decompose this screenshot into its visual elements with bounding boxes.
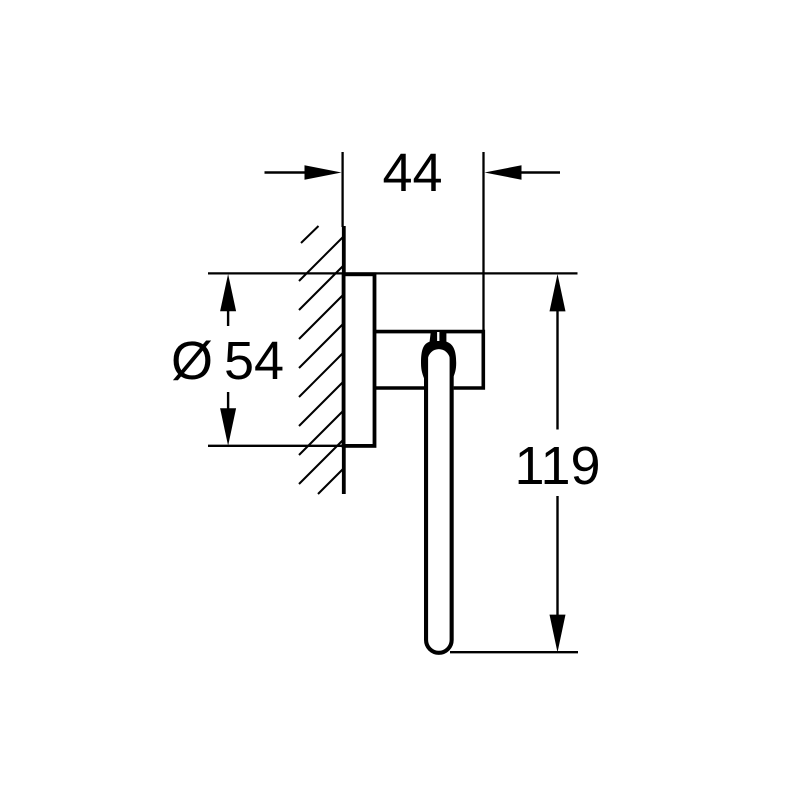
extension line bottom 119 [450,651,578,653]
svg-text:Ø: Ø [171,331,213,391]
spare roll ring [426,356,452,653]
svg-text:44: 44 [382,143,442,203]
dimension line 119 with arrows [550,274,566,652]
dimension line 44 right with arrow [485,165,561,179]
svg-text:54: 54 [224,331,284,391]
dimension line 54 with arrows [220,274,236,446]
svg-text:119: 119 [514,436,600,496]
label diameter 54 [171,331,284,391]
extension line bottom 54 [208,445,343,447]
wall hatching [299,226,343,494]
extension line wall face (44 left) [341,152,343,227]
ring pivot bell [421,331,456,390]
holder body [375,332,484,388]
ring pin slot [437,332,439,341]
wall face line [342,226,346,494]
dimension line 44 left with arrow [265,165,342,179]
label 44 [382,143,442,203]
extension line holder right (44 right) [482,152,484,330]
label 119 [514,436,600,496]
extension line top (shared 54/119) [208,272,578,274]
wall plate [344,274,375,446]
